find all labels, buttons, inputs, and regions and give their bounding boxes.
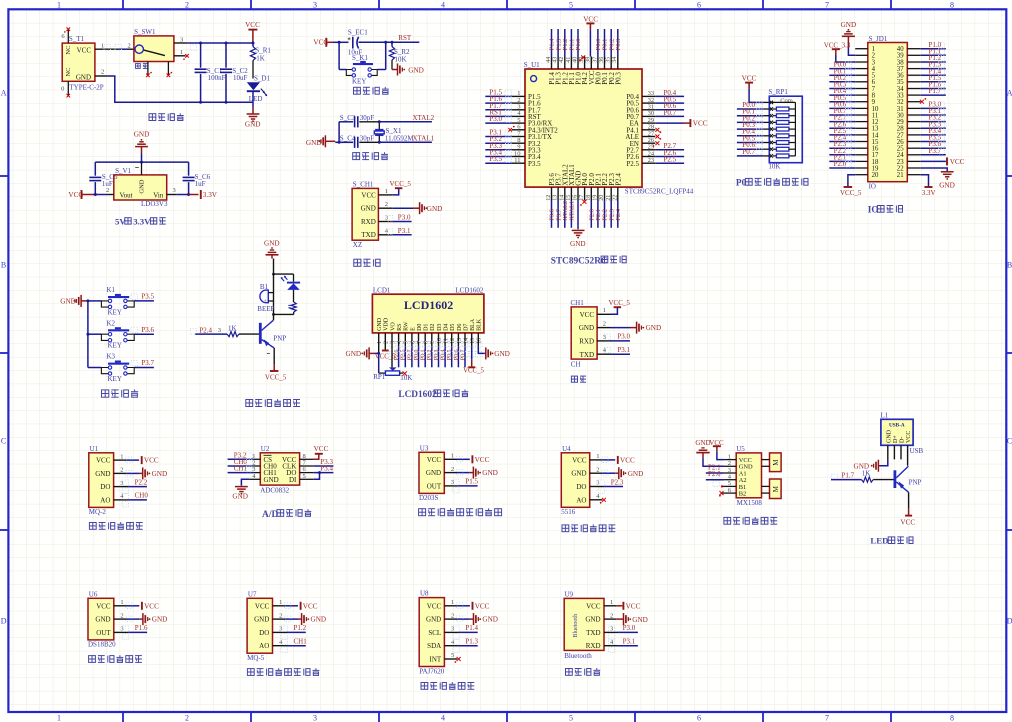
svg-text:VCC: VCC: [906, 431, 912, 443]
svg-text:L1: L1: [881, 412, 889, 420]
wire GND to U5 pin2: [703, 458, 736, 466]
svg-text:U9: U9: [565, 591, 574, 599]
svg-text:P3.1: P3.1: [617, 346, 630, 354]
svg-text:XTAL1: XTAL1: [569, 201, 576, 221]
capacitor S_C1 100nF: [195, 42, 226, 104]
caption LCD1602 display: [398, 390, 468, 401]
svg-text:XZ: XZ: [353, 241, 362, 249]
svg-text:100nF: 100nF: [208, 74, 226, 82]
svg-text:P1.4: P1.4: [465, 624, 478, 632]
svg-text:1: 1: [120, 599, 123, 606]
svg-text:BLA: BLA: [470, 318, 476, 331]
connector CH1 serial: [571, 299, 607, 368]
svg-text:MQ-5: MQ-5: [247, 654, 265, 662]
svg-text:GND: GND: [346, 350, 362, 358]
wire JD1 pin21 to 3.3V: [921, 175, 929, 187]
svg-text:5: 5: [569, 713, 573, 722]
wire U6 pin1 to VCC: [114, 603, 140, 609]
wire GND to JD1 pin2: [848, 47, 855, 56]
sensor module U7 MQ-5: [247, 590, 283, 662]
wire U9 pin1 to VCC: [604, 605, 622, 607]
svg-text:VCC: VCC: [77, 46, 92, 54]
svg-text:2: 2: [603, 321, 606, 328]
bluetooth module U9: [564, 591, 614, 660]
ground (IO top): [841, 21, 857, 47]
ground (U7): [302, 613, 326, 625]
svg-text:P2.4: P2.4: [615, 208, 622, 220]
caption STC89C52RC main chip: [551, 256, 626, 266]
caption shou-shi gesture: [421, 682, 474, 689]
svg-text:MX1508: MX1508: [737, 499, 763, 507]
svg-text:U3: U3: [420, 444, 429, 452]
svg-text:VCC_5: VCC_5: [463, 367, 484, 374]
svg-text:2: 2: [596, 466, 599, 473]
top pin stubs 44-34: [546, 57, 618, 70]
no-connect pin 6: [508, 126, 514, 132]
svg-text:2: 2: [101, 68, 104, 75]
svg-text:B: B: [1, 261, 6, 270]
svg-text:D7: D7: [463, 324, 469, 331]
svg-text:GND: GND: [361, 205, 376, 213]
svg-text:VDD: VDD: [384, 317, 390, 331]
pin 1 of SW1 (no connect): [174, 49, 189, 60]
potentiometer RP1 10K (LCD): [373, 353, 412, 382]
top wires P1.x P0.x: [552, 29, 618, 57]
svg-text:Vin: Vin: [153, 191, 164, 199]
svg-text:5: 5: [451, 652, 454, 659]
wires P2.7-P2.0 to JD1: [829, 114, 855, 168]
resistor pack S_RP1 10K: [768, 88, 802, 171]
power VCC (U7): [301, 602, 318, 611]
svg-text:TYPE-C-2P: TYPE-C-2P: [69, 84, 103, 92]
caption IO expansion: [868, 206, 903, 216]
svg-text:A: A: [1007, 89, 1012, 98]
svg-text:VCC: VCC: [620, 457, 635, 465]
wire USB VCC pin to transistor: [907, 445, 909, 465]
wire USB GND pin: [878, 445, 887, 465]
wire CH1 pin2 to GND: [378, 207, 419, 209]
svg-text:3: 3: [120, 480, 123, 487]
svg-text:STC89C52RC: STC89C52RC: [551, 256, 608, 266]
left wires (P1.5..P3.5): [485, 96, 512, 163]
wire reset top rail: [333, 41, 419, 44]
svg-text:PAJ7620: PAJ7620: [419, 667, 445, 675]
wires P0.0-P0.7 to JD1: [829, 61, 855, 115]
bottom net labels rotated: [549, 201, 622, 221]
svg-text:2: 2: [106, 187, 109, 194]
svg-text:VCC: VCC: [96, 457, 111, 465]
bottom wires: [552, 201, 618, 230]
power 3.3V (IO): [922, 187, 936, 197]
svg-text:2: 2: [385, 201, 388, 208]
svg-text:GND: GND: [482, 469, 498, 477]
svg-text:XTAL1: XTAL1: [413, 135, 435, 143]
wire U6 pin3 net P1.6: [114, 631, 147, 633]
power VCC (top of R1): [245, 21, 260, 42]
wire VCC to U5 pin1: [717, 452, 736, 460]
pin 6 of S_T1 (top, no connect): [61, 27, 70, 43]
power VCC (LED lamp): [900, 516, 915, 527]
svg-text:XTAL2: XTAL2: [413, 114, 435, 122]
svg-text:41: 41: [566, 57, 572, 63]
net label P1.6 (U6): [122, 624, 148, 639]
svg-text:GND: GND: [138, 179, 145, 193]
svg-text:P3.5: P3.5: [528, 160, 541, 168]
svg-text:S_C3: S_C3: [340, 114, 356, 122]
svg-text:18: 18: [586, 195, 592, 201]
wire Vout rail: [93, 187, 114, 195]
svg-text:2: 2: [279, 612, 282, 619]
svg-text:S_D1: S_D1: [254, 75, 270, 83]
net label CH1 (U7): [281, 638, 307, 653]
svg-text:7: 7: [825, 713, 829, 722]
power VCC (U6): [142, 602, 159, 611]
svg-text:2: 2: [185, 713, 189, 722]
svg-text:DO: DO: [100, 483, 110, 491]
caption guang-zhao light: [562, 525, 615, 532]
left net labels: [489, 88, 511, 163]
wire U8 pin2 to GND: [444, 616, 473, 622]
svg-text:U2: U2: [261, 445, 270, 453]
LED (alarm) with resistor: [281, 274, 301, 314]
caption wen-du temperature: [89, 655, 142, 662]
connector S_JD1 IO expansion: [868, 35, 908, 191]
no-connect pin 32: [920, 98, 926, 104]
svg-text:D4: D4: [444, 324, 450, 331]
svg-text:3: 3: [313, 0, 317, 9]
power VCC (RP1): [742, 75, 757, 89]
svg-text:GND: GND: [60, 298, 76, 306]
no-connect pin 39 P4.2: [579, 55, 585, 61]
svg-text:U8: U8: [420, 590, 429, 598]
svg-text:17: 17: [579, 195, 585, 201]
svg-text:D+: D+: [893, 435, 899, 443]
svg-text:P1.7: P1.7: [842, 472, 855, 480]
wire U8 pin4 net P1.3: [444, 645, 477, 647]
svg-text:7: 7: [825, 0, 829, 9]
caption LED lamp: [870, 536, 913, 546]
svg-text:VCC: VCC: [144, 457, 159, 465]
svg-text:VCC: VCC: [427, 602, 442, 610]
svg-text:22: 22: [612, 195, 618, 201]
svg-text:VCC: VCC: [950, 158, 965, 166]
resistor S_R2 10K: [389, 42, 410, 69]
wire U7 pin3 net P1.2: [273, 631, 306, 633]
svg-text:11: 11: [514, 157, 520, 164]
power VCC (reset): [313, 38, 333, 47]
wire right branch of key: [377, 42, 386, 69]
svg-text:S_R1: S_R1: [255, 46, 271, 54]
svg-text:1: 1: [451, 599, 454, 606]
net label P3.1 (download): [387, 227, 411, 235]
svg-text:S_T1: S_T1: [69, 35, 85, 43]
transistor Q2 PNP (LED lamp): [895, 466, 922, 492]
wire U1 pin1 to VCC: [114, 457, 140, 463]
wire U5 pin3 P2.1: [706, 463, 736, 480]
svg-text:P1.5: P1.5: [465, 478, 478, 486]
svg-text:20: 20: [599, 195, 605, 201]
regulator S_V1 LDO3V3: [114, 167, 168, 208]
wire CH1 pin2 to GND (serial): [597, 327, 637, 329]
svg-text:1: 1: [603, 307, 606, 314]
compile marks (LCD): [389, 342, 482, 358]
svg-text:20: 20: [872, 172, 879, 179]
svg-text:CH1: CH1: [234, 465, 248, 473]
svg-text:RP1: RP1: [373, 373, 386, 381]
svg-text:19: 19: [593, 195, 599, 201]
svg-text:VCC_5: VCC_5: [265, 374, 287, 382]
key K2: [88, 319, 155, 349]
svg-text:P2.3: P2.3: [611, 478, 624, 486]
ground (U4): [619, 467, 643, 479]
no-connect pin5 of U8: [444, 657, 460, 663]
svg-text:P2.4: P2.4: [614, 173, 622, 186]
svg-text:P3.0: P3.0: [617, 333, 630, 341]
LCD module LCD1: [372, 286, 484, 333]
svg-text:16: 16: [573, 195, 579, 201]
svg-text:VO: VO: [390, 322, 396, 331]
svg-text:11.0592M: 11.0592M: [385, 135, 414, 143]
LCD pin numbers: [377, 338, 483, 344]
caption jing-zhen-dian-lu: [353, 152, 388, 159]
caption sheng-guang-bao-jing: [246, 399, 300, 406]
svg-text:USB-A: USB-A: [889, 422, 905, 428]
svg-text:5: 5: [569, 0, 573, 9]
power VCC (motor): [709, 439, 724, 452]
svg-text:VCC: VCC: [96, 602, 111, 610]
svg-text:IO: IO: [869, 182, 876, 190]
ground (ADC): [232, 487, 248, 501]
wire CH1 pin3 P3.0: [378, 221, 411, 223]
power VCC_5 (serial): [609, 299, 631, 307]
key K3: [88, 353, 155, 383]
svg-text:OUT: OUT: [427, 482, 442, 490]
motor M1: [762, 453, 782, 472]
ground (U3): [473, 467, 497, 479]
svg-text:38: 38: [586, 57, 592, 63]
svg-text:3.3V: 3.3V: [922, 189, 936, 197]
svg-text:RS: RS: [397, 324, 403, 331]
crystal S_X1 11.0592M: [374, 122, 414, 143]
svg-text:AO: AO: [576, 496, 586, 504]
ground (LED lamp): [854, 460, 879, 472]
caption yan-wu smoke: [89, 522, 142, 529]
ground (bluetooth): [624, 613, 648, 625]
svg-text:LED: LED: [870, 536, 888, 546]
svg-text:LCD1602: LCD1602: [404, 298, 453, 312]
svg-text:DS18B20: DS18B20: [88, 641, 116, 649]
wire U5 pin4 P2.0: [706, 470, 736, 487]
svg-text:CH: CH: [571, 361, 581, 369]
svg-text:1: 1: [610, 599, 613, 606]
buzzer B1 BEEP: [257, 274, 274, 314]
svg-text:P2.2: P2.2: [135, 478, 148, 486]
no-connect pin4 of U4: [590, 498, 606, 504]
motor driver U5 MX1508: [728, 445, 763, 507]
power VCC (EA pin): [690, 119, 707, 128]
svg-text:S_U1: S_U1: [524, 61, 540, 69]
svg-text:4: 4: [441, 0, 445, 9]
svg-text:D5: D5: [450, 324, 456, 331]
svg-text:USB: USB: [910, 447, 924, 455]
svg-text:KEY: KEY: [108, 375, 122, 383]
svg-text:3: 3: [120, 626, 123, 633]
svg-text:VCC: VCC: [475, 456, 490, 464]
wire CH1 pin4 P3.1: [378, 234, 411, 236]
svg-text:BLK: BLK: [477, 318, 483, 331]
wire U3 pin2 to GND: [444, 470, 473, 476]
wire top rail 5V33: [95, 154, 188, 175]
svg-text:1K: 1K: [862, 470, 871, 478]
net label P1.4 (U8): [453, 624, 479, 639]
svg-text:VCC_5: VCC_5: [609, 299, 631, 307]
wire ADC pin1 P3.2: [228, 451, 261, 459]
JD1 pin stubs: [855, 49, 921, 175]
wire U4 pin2 to GND: [590, 470, 619, 476]
wire U9 pin2 to GND: [604, 618, 624, 620]
svg-text:GND: GND: [152, 616, 168, 624]
svg-text:GND: GND: [306, 139, 322, 147]
wire U7 pin2 to GND: [273, 616, 302, 622]
svg-text:D0: D0: [417, 324, 423, 331]
svg-text:U5: U5: [736, 445, 745, 453]
resistor S_R1 1K: [250, 42, 271, 79]
wire XTAL1: [378, 141, 432, 144]
svg-text:P2.5: P2.5: [664, 156, 677, 164]
svg-text:SCL: SCL: [428, 629, 441, 637]
svg-text:1: 1: [120, 453, 123, 460]
power VCC (U3): [472, 455, 489, 464]
svg-text:+: +: [264, 298, 267, 304]
svg-text:D2: D2: [430, 324, 436, 331]
wire crystal left bus: [335, 122, 340, 144]
svg-text:MQ-2: MQ-2: [89, 508, 107, 516]
caption chuan-kou: [571, 376, 586, 382]
svg-text:43: 43: [553, 57, 559, 63]
left pin stubs 1-11: [512, 90, 525, 164]
no-connect U5 pin6: [719, 491, 736, 497]
svg-text:VCC: VCC: [580, 311, 595, 319]
svg-text:VCC: VCC: [255, 602, 270, 610]
svg-text:8: 8: [950, 713, 954, 722]
svg-text:P2.0: P2.0: [834, 160, 847, 168]
capacitor S_EC1 10uF (polarized): [348, 29, 369, 57]
svg-text:GND: GND: [152, 470, 168, 478]
svg-text:C: C: [1007, 437, 1012, 446]
svg-text:D1: D1: [424, 324, 430, 331]
svg-text:3: 3: [218, 327, 221, 334]
net label RST: [398, 34, 412, 42]
ground (5V33 top): [134, 131, 150, 154]
svg-text:GND: GND: [134, 131, 150, 139]
power VCC_5 (LCD VDD): [375, 333, 396, 360]
svg-text:10K: 10K: [395, 56, 407, 64]
wire ADC pin5 DI join: [300, 471, 321, 479]
svg-text:VCC: VCC: [427, 456, 442, 464]
transistor Q1 PNP (alarm): [260, 320, 286, 348]
svg-text:2: 2: [120, 467, 123, 474]
svg-text:10K: 10K: [768, 163, 780, 171]
svg-text:GND: GND: [482, 616, 498, 624]
ground (LCD right BLK pin): [478, 333, 510, 360]
svg-text:1: 1: [180, 49, 183, 56]
power VCC (IO right): [947, 157, 965, 166]
wire VCC_3.3 to JD1 pin3: [836, 55, 855, 62]
wire ADC pin7 P3.3: [300, 458, 334, 466]
svg-text:SDA: SDA: [427, 642, 441, 650]
svg-text:BEEP: BEEP: [257, 305, 274, 313]
svg-text:M: M: [772, 459, 780, 466]
LCD VO wire to potentiometer: [391, 333, 393, 368]
svg-text:VCC: VCC: [586, 602, 601, 610]
svg-text:INT: INT: [430, 656, 442, 664]
ground (download): [420, 202, 443, 214]
svg-text:P1.6: P1.6: [135, 624, 148, 632]
svg-text:P3.4: P3.4: [320, 465, 333, 473]
svg-text:2: 2: [120, 612, 123, 619]
caption xia-zai-kou: [354, 259, 380, 266]
sensor module U3 D203S: [419, 444, 454, 502]
wire base 1K from P1.7: [831, 470, 894, 483]
wires P3.0-P3.7 from JD1: [921, 101, 946, 155]
svg-text:S_JD1: S_JD1: [869, 35, 888, 43]
ground (reset): [392, 64, 424, 76]
net label XTAL1: [413, 135, 435, 143]
svg-text:GND: GND: [245, 121, 261, 129]
svg-text:35: 35: [606, 57, 612, 63]
svg-text:Bluetooth: Bluetooth: [564, 652, 592, 660]
power VCC (U8): [473, 602, 490, 611]
wire U4 pin3 net P2.3: [590, 486, 623, 488]
caption ren-ti PIR: [419, 508, 502, 515]
wire U6 pin2 to GND: [114, 616, 143, 622]
ground (crystal): [306, 135, 335, 147]
svg-text:NC: NC: [65, 46, 72, 55]
caption A/D conversion: [262, 509, 311, 520]
bottom pin stubs 12-22: [546, 187, 618, 201]
svg-text:40: 40: [572, 57, 578, 63]
wire U1 pin2 to GND: [114, 470, 143, 476]
svg-text:K2: K2: [107, 319, 116, 327]
svg-text:GND: GND: [76, 73, 91, 81]
wire GND bottom rail of power circuit: [95, 68, 253, 107]
key S_K1: [346, 54, 377, 85]
USB socket L1: [881, 412, 924, 455]
bottom pin of S_T1 (no connect): [61, 81, 70, 97]
svg-text:S_EC1: S_EC1: [348, 29, 368, 37]
wire JD1 pin20 to VCC_5: [848, 175, 855, 187]
wire alarm top: [272, 259, 293, 276]
wire U7 pin4 net CH1: [273, 645, 306, 647]
svg-text:VCC: VCC: [900, 518, 915, 526]
wire alarm bottom join: [272, 313, 294, 320]
wire emitter to VCC (LED lamp): [908, 492, 910, 515]
capacitor S_C5 1uF: [89, 162, 118, 196]
svg-text:DI: DI: [289, 476, 297, 484]
svg-text:VCC: VCC: [144, 602, 159, 610]
ground (LCD left): [346, 347, 381, 359]
svg-text:GND: GND: [585, 616, 600, 624]
sensor module U6 DS18B20: [88, 590, 124, 648]
svg-text:1: 1: [451, 453, 454, 460]
svg-text:NC: NC: [65, 68, 72, 77]
svg-text:S_R2: S_R2: [394, 48, 410, 56]
svg-text:CH1: CH1: [571, 299, 585, 307]
svg-text:1K: 1K: [256, 54, 265, 62]
svg-text:GND: GND: [632, 616, 648, 624]
svg-text:36: 36: [599, 57, 605, 63]
svg-text:VCC: VCC: [314, 445, 329, 453]
